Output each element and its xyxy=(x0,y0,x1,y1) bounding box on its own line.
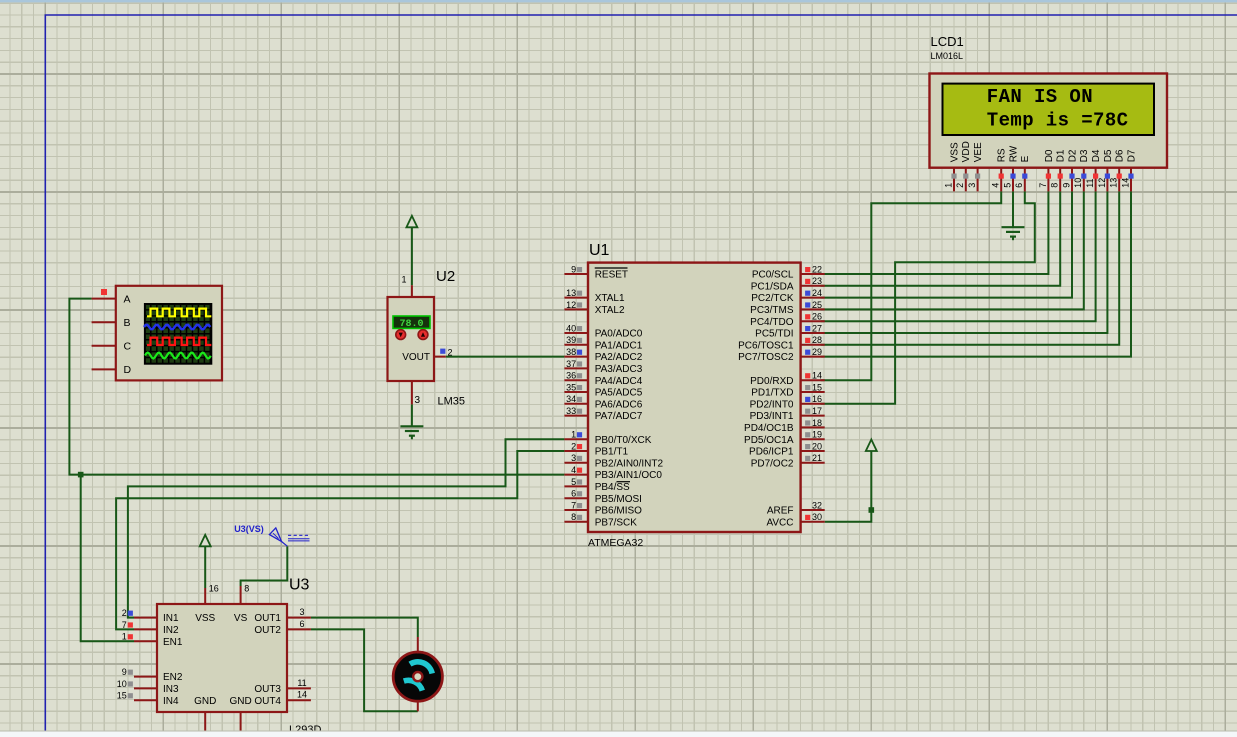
svg-text:15: 15 xyxy=(812,382,822,392)
LCD1 pin 7 D0 xyxy=(1047,168,1049,192)
U3 pin 2 IN1 xyxy=(134,617,157,619)
LCD1 pin 9 D2 xyxy=(1071,168,1073,192)
U1 pin 20 PD6/ICP1 xyxy=(801,450,825,452)
U1 pin 39 PA1/ADC1 xyxy=(564,344,588,346)
U1 pin 19 PD5/OC1A xyxy=(801,438,825,440)
U1 pin 37 PA3/ADC3 xyxy=(564,367,588,369)
svg-text:EN2: EN2 xyxy=(163,672,183,683)
svg-text:C: C xyxy=(124,341,132,353)
U1 pin 27 PC5/TDI xyxy=(801,332,825,334)
svg-text:D: D xyxy=(124,364,132,376)
U2 display 78.0 xyxy=(393,316,430,328)
power VCC arrow right of U1 xyxy=(866,440,877,452)
U1 pin 36 PA4/ADC4 xyxy=(564,379,588,381)
svg-text:2: 2 xyxy=(571,441,576,451)
U1 pin 29 PC7/TOSC2 xyxy=(801,356,825,358)
svg-text:PB3/AIN1/OC0: PB3/AIN1/OC0 xyxy=(595,470,663,481)
svg-text:40: 40 xyxy=(566,323,576,333)
U3 pin 16 VSS xyxy=(204,588,206,604)
svg-text:RESET: RESET xyxy=(595,270,628,281)
svg-text:OUT1: OUT1 xyxy=(254,613,281,624)
svg-text:RS: RS xyxy=(997,148,1008,162)
wire oscilloscope-A to PB3 net xyxy=(69,299,564,475)
U3 pin 1 EN1 xyxy=(134,640,157,642)
svg-text:PB0/T0/XCK: PB0/T0/XCK xyxy=(595,435,652,446)
LCD1 pin 1 VSS xyxy=(953,168,955,192)
svg-text:19: 19 xyxy=(812,430,822,440)
svg-text:14: 14 xyxy=(297,690,307,700)
U1 pin 12 XTAL2 xyxy=(564,308,588,310)
wire L293D VS to probe xyxy=(241,546,288,586)
svg-text:PB6/MISO: PB6/MISO xyxy=(595,506,642,517)
LCD1 pin 2 VDD xyxy=(965,168,967,192)
U3 pin 3 OUT1 xyxy=(287,617,311,619)
wire LCD D2 to PC2 xyxy=(821,191,1072,297)
wire LCD D7 to PC7 xyxy=(821,191,1131,356)
U3 pin 15 IN4 xyxy=(134,699,157,701)
oscilloscope pin B xyxy=(92,321,116,323)
svg-text:PC7/TOSC2: PC7/TOSC2 xyxy=(738,352,794,363)
svg-text:PC3/TMS: PC3/TMS xyxy=(750,305,794,316)
svg-text:IN1: IN1 xyxy=(163,613,179,624)
LCD1 pin 3 VEE xyxy=(977,168,979,192)
svg-text:PA5/ADC5: PA5/ADC5 xyxy=(595,388,643,399)
svg-text:6: 6 xyxy=(571,489,576,499)
svg-text:PC2/TCK: PC2/TCK xyxy=(751,293,794,304)
wire LCD E to PD2 xyxy=(821,191,1035,403)
svg-text:2: 2 xyxy=(448,348,453,358)
oscilloscope pin D xyxy=(92,368,116,370)
svg-text:23: 23 xyxy=(812,276,822,286)
svg-text:34: 34 xyxy=(566,394,576,404)
svg-text:PA4/ADC4: PA4/ADC4 xyxy=(595,376,643,387)
svg-text:1: 1 xyxy=(401,275,406,285)
svg-text:LCD1: LCD1 xyxy=(931,34,964,49)
svg-text:LM35: LM35 xyxy=(438,396,466,408)
svg-text:25: 25 xyxy=(812,300,822,310)
U1 pin 18 PD4/OC1B xyxy=(801,426,825,428)
svg-text:Temp is =78C: Temp is =78C xyxy=(987,110,1129,132)
svg-text:PA7/ADC7: PA7/ADC7 xyxy=(595,411,643,422)
svg-text:18: 18 xyxy=(812,418,822,428)
wire LM35 pin1 to VCC xyxy=(411,227,413,285)
svg-text:VSS: VSS xyxy=(949,142,960,162)
U1 pin 23 PC1/SDA xyxy=(801,285,825,287)
svg-text:GND: GND xyxy=(194,696,216,707)
LCD1 pin 14 D7 xyxy=(1130,168,1132,192)
svg-text:PD1/TXD: PD1/TXD xyxy=(751,388,793,399)
wire LCD D4 to PC4 xyxy=(821,191,1096,321)
U3 GND pin left xyxy=(204,712,206,731)
svg-text:24: 24 xyxy=(812,288,822,298)
svg-text:4: 4 xyxy=(991,183,1001,188)
svg-text:1: 1 xyxy=(943,183,953,188)
oscilloscope trace channel C red xyxy=(147,338,211,345)
U1 pin 35 PA5/ADC5 xyxy=(564,391,588,393)
svg-text:4: 4 xyxy=(571,465,576,475)
svg-text:PB1/T1: PB1/T1 xyxy=(595,447,629,458)
U1 pin 21 PD7/OC2 xyxy=(801,462,825,464)
svg-text:PD3/INT1: PD3/INT1 xyxy=(750,411,794,422)
display LCD1 LM016L body xyxy=(930,74,1168,168)
svg-text:5: 5 xyxy=(571,477,576,487)
svg-text:78.0: 78.0 xyxy=(399,319,423,330)
svg-text:D0: D0 xyxy=(1044,149,1055,162)
svg-text:14: 14 xyxy=(812,371,822,381)
svg-text:1: 1 xyxy=(122,632,127,642)
svg-text:GND: GND xyxy=(229,696,251,707)
wire LCD D6 to PC6 xyxy=(821,191,1120,344)
svg-text:XTAL1: XTAL1 xyxy=(595,293,625,304)
U1 pin 4 PB3/AIN1/OC0 xyxy=(564,474,588,476)
U1 pin 34 PA6/ADC6 xyxy=(564,403,588,405)
svg-text:30: 30 xyxy=(812,512,822,522)
svg-text:3: 3 xyxy=(299,607,304,617)
LCD1 pin 5 RW xyxy=(1012,168,1014,192)
svg-text:D3: D3 xyxy=(1079,149,1090,162)
oscilloscope trace channel A yellow xyxy=(147,309,211,317)
svg-text:PB2/AIN0/INT2: PB2/AIN0/INT2 xyxy=(595,458,664,469)
U3 pin 9 EN2 xyxy=(134,676,157,678)
svg-text:PA3/ADC3: PA3/ADC3 xyxy=(595,364,643,375)
svg-text:B: B xyxy=(124,317,131,329)
svg-text:IN4: IN4 xyxy=(163,696,179,707)
U3 GND pin right xyxy=(240,712,242,731)
wire branch junction to EN1 xyxy=(81,475,134,642)
svg-text:U3: U3 xyxy=(289,577,310,594)
svg-text:IN2: IN2 xyxy=(163,625,179,636)
svg-text:D4: D4 xyxy=(1091,149,1102,162)
svg-text:16: 16 xyxy=(209,584,219,594)
svg-text:22: 22 xyxy=(812,264,822,274)
svg-text:PB5/MOSI: PB5/MOSI xyxy=(595,494,642,505)
svg-text:FAN IS ON: FAN IS ON xyxy=(987,86,1093,108)
svg-text:IN3: IN3 xyxy=(163,684,179,695)
svg-text:9: 9 xyxy=(122,667,127,677)
wire L293D VSS to VCC xyxy=(204,547,206,588)
U3 pin 14 OUT4 xyxy=(287,699,311,701)
svg-text:39: 39 xyxy=(566,335,576,345)
svg-text:27: 27 xyxy=(812,323,822,333)
oscilloscope trace channel B blue xyxy=(144,325,210,329)
U1 pin 6 PB5/MOSI xyxy=(564,497,588,499)
oscilloscope pin A xyxy=(92,298,116,300)
wire PB0 to IN1 xyxy=(128,439,565,617)
svg-text:17: 17 xyxy=(812,406,822,416)
wire LCD D3 to PC3 xyxy=(821,191,1084,309)
svg-text:21: 21 xyxy=(812,453,822,463)
mcu U1 ATMEGA32 body xyxy=(588,263,801,532)
LCD1 green screen xyxy=(943,84,1155,135)
svg-text:11: 11 xyxy=(297,678,306,688)
svg-text:14: 14 xyxy=(1120,178,1130,188)
svg-text:XTAL2: XTAL2 xyxy=(595,305,625,316)
svg-text:E: E xyxy=(1020,155,1031,162)
svg-text:29: 29 xyxy=(812,347,822,357)
svg-text:PD6/ICP1: PD6/ICP1 xyxy=(749,447,794,458)
U1 pin 28 PC6/TOSC1 xyxy=(801,344,825,346)
U3 pin 8 VS xyxy=(240,586,242,604)
wire LM35 pin3 to ground xyxy=(411,404,413,426)
sensor U2 LM35 body xyxy=(388,297,435,381)
svg-text:LM016L: LM016L xyxy=(931,51,964,61)
driver U3 L293D body xyxy=(157,604,287,712)
U1 pin 33 PA7/ADC7 xyxy=(564,415,588,417)
wire LM35 VOUT to PA2 xyxy=(446,356,565,358)
wire LCD D0 to PC0 xyxy=(821,191,1049,274)
svg-text:2: 2 xyxy=(122,608,127,618)
wire OUT1 to motor top xyxy=(311,618,418,637)
svg-text:VDD: VDD xyxy=(961,141,972,162)
svg-text:8: 8 xyxy=(1050,183,1060,188)
svg-text:EN1: EN1 xyxy=(163,637,183,648)
svg-text:6: 6 xyxy=(1014,183,1024,188)
oscilloscope channel A state square red xyxy=(101,289,107,295)
svg-text:11: 11 xyxy=(1085,178,1095,187)
motor pin top xyxy=(417,637,419,654)
svg-text:VS: VS xyxy=(234,613,248,624)
svg-text:1: 1 xyxy=(571,430,576,440)
svg-text:3: 3 xyxy=(415,395,421,406)
svg-text:16: 16 xyxy=(812,394,822,404)
wire LCD RW to ground xyxy=(1012,191,1014,227)
node junction on AVCC riser xyxy=(869,507,875,513)
U3 pin 11 OUT3 xyxy=(287,687,311,689)
U2 pin 2 stub VOUT xyxy=(434,356,446,358)
U2 up button xyxy=(418,330,428,340)
svg-text:PA6/ADC6: PA6/ADC6 xyxy=(595,399,643,410)
U1 pin 2 PB1/T1 xyxy=(564,450,588,452)
svg-text:PA0/ADC0: PA0/ADC0 xyxy=(595,329,643,340)
U3 pin 10 IN3 xyxy=(134,687,157,689)
svg-text:PA2/ADC2: PA2/ADC2 xyxy=(595,352,643,363)
svg-text:7: 7 xyxy=(1038,183,1048,188)
svg-text:PD2/INT0: PD2/INT0 xyxy=(750,399,794,410)
wire PB1 to IN2 xyxy=(116,451,564,629)
U2 down button xyxy=(396,330,406,340)
svg-text:PD7/OC2: PD7/OC2 xyxy=(751,458,794,469)
svg-text:PD5/OC1A: PD5/OC1A xyxy=(744,435,794,446)
svg-text:PC6/TOSC1: PC6/TOSC1 xyxy=(738,340,794,351)
oscilloscope pin C xyxy=(92,345,116,347)
wire AVCC to VCC xyxy=(825,451,872,522)
svg-text:PD0/RXD: PD0/RXD xyxy=(750,376,793,387)
wire OUT2 to motor bottom xyxy=(311,629,418,711)
svg-text:5: 5 xyxy=(1002,183,1012,188)
U1 pin 17 PD3/INT1 xyxy=(801,415,825,417)
svg-text:U1: U1 xyxy=(589,242,610,259)
motor hub xyxy=(413,672,422,681)
U1 pin 32 AREF xyxy=(801,509,825,511)
svg-text:33: 33 xyxy=(566,406,576,416)
svg-text:PD4/OC1B: PD4/OC1B xyxy=(744,423,794,434)
U1 pin 13 XTAL1 xyxy=(564,297,588,299)
svg-text:RW: RW xyxy=(1008,145,1019,162)
wire LCD D5 to PC5 xyxy=(821,191,1108,333)
svg-text:12: 12 xyxy=(566,300,576,310)
U1 pin 1 PB0/T0/XCK xyxy=(564,438,588,440)
U1 pin 9 RESET xyxy=(564,273,588,275)
svg-text:13: 13 xyxy=(566,288,576,298)
svg-text:U2: U2 xyxy=(436,268,455,285)
svg-text:26: 26 xyxy=(812,312,822,322)
U1 pin 40 PA0/ADC0 xyxy=(564,332,588,334)
svg-text:D5: D5 xyxy=(1103,149,1114,162)
svg-text:PB4/SS: PB4/SS xyxy=(595,482,630,493)
svg-text:3: 3 xyxy=(571,453,576,463)
svg-text:D2: D2 xyxy=(1067,149,1078,162)
ground below U2 xyxy=(400,425,423,427)
svg-text:OUT3: OUT3 xyxy=(254,684,281,695)
svg-text:PC4/TDO: PC4/TDO xyxy=(750,317,794,328)
probe dashed annotation xyxy=(288,534,310,536)
svg-text:AVCC: AVCC xyxy=(766,517,793,528)
svg-text:7: 7 xyxy=(571,500,576,510)
U1 pin 14 PD0/RXD xyxy=(801,379,825,381)
svg-text:3: 3 xyxy=(967,183,977,188)
U1 pin 22 PC0/SCL xyxy=(801,273,825,275)
svg-text:D6: D6 xyxy=(1115,149,1126,162)
svg-text:PC1/SDA: PC1/SDA xyxy=(751,281,794,292)
U1 pin 15 PD1/TXD xyxy=(801,391,825,393)
LCD1 pin 10 D3 xyxy=(1083,168,1085,192)
svg-text:8: 8 xyxy=(571,512,576,522)
svg-text:9: 9 xyxy=(571,264,576,274)
svg-text:10: 10 xyxy=(1073,178,1083,188)
svg-text:12: 12 xyxy=(1097,178,1107,188)
U1 pin 26 PC4/TDO xyxy=(801,320,825,322)
svg-text:PA1/ADC1: PA1/ADC1 xyxy=(595,340,643,351)
U1 pin 7 PB6/MISO xyxy=(564,509,588,511)
motor blade arc top xyxy=(410,662,432,674)
svg-text:37: 37 xyxy=(566,359,576,369)
svg-text:U3(VS): U3(VS) xyxy=(234,524,264,534)
svg-text:36: 36 xyxy=(566,371,576,381)
oscilloscope screen xyxy=(145,304,211,364)
svg-text:9: 9 xyxy=(1061,183,1071,188)
oscilloscope body xyxy=(116,286,222,381)
svg-text:OUT4: OUT4 xyxy=(254,696,281,707)
window bottom strip xyxy=(0,731,1237,737)
svg-text:PC0/SCL: PC0/SCL xyxy=(752,270,794,281)
svg-text:AREF: AREF xyxy=(767,506,794,517)
svg-text:VOUT: VOUT xyxy=(402,352,430,363)
U1 pin 25 PC3/TMS xyxy=(801,308,825,310)
LCD1 pin 8 D1 xyxy=(1059,168,1061,192)
U1 pin 3 PB2/AIN0/INT2 xyxy=(564,462,588,464)
LCD1 pin 11 D4 xyxy=(1095,168,1097,192)
svg-text:PB7/SCK: PB7/SCK xyxy=(595,517,638,528)
U1 pin 38 PA2/ADC2 xyxy=(564,356,588,358)
U3 pin 7 IN2 xyxy=(134,628,157,630)
svg-text:38: 38 xyxy=(566,347,576,357)
svg-text:D1: D1 xyxy=(1056,149,1067,162)
U1 pin 8 PB7/SCK xyxy=(564,521,588,523)
svg-text:35: 35 xyxy=(566,382,576,392)
LCD1 pin 6 E xyxy=(1024,168,1026,192)
svg-text:2: 2 xyxy=(955,183,965,188)
svg-text:PC5/TDI: PC5/TDI xyxy=(755,329,793,340)
node junction A/PB3/EN1 xyxy=(78,472,84,478)
motor pin bottom xyxy=(417,700,419,711)
power VCC arrow above U2 xyxy=(406,216,417,228)
U1 pin 30 AVCC xyxy=(801,521,825,523)
LCD1 pin 4 RS xyxy=(1000,168,1002,192)
wire LCD RS to PD0 xyxy=(821,191,1002,380)
U3 pin 6 OUT2 xyxy=(287,628,311,630)
U1 pin 24 PC2/TCK xyxy=(801,297,825,299)
U2 pin 1 stub xyxy=(411,285,413,297)
svg-text:OUT2: OUT2 xyxy=(254,625,281,636)
svg-text:ATMEGA32: ATMEGA32 xyxy=(588,537,643,549)
svg-text:A: A xyxy=(124,293,131,305)
power VCC arrow above U3 VSS xyxy=(200,535,211,547)
svg-text:VSS: VSS xyxy=(195,613,215,624)
svg-text:28: 28 xyxy=(812,335,822,345)
svg-text:20: 20 xyxy=(812,441,822,451)
ground below LCD RW pin xyxy=(1002,226,1025,228)
svg-text:10: 10 xyxy=(117,679,127,689)
LCD1 pin 12 D5 xyxy=(1106,168,1108,192)
svg-text:D7: D7 xyxy=(1126,149,1137,162)
svg-text:15: 15 xyxy=(117,691,127,701)
LCD1 pin 13 D6 xyxy=(1118,168,1120,192)
U1 pin 16 PD2/INT0 xyxy=(801,403,825,405)
U1 pin 5 PB4/SS xyxy=(564,485,588,487)
svg-text:6: 6 xyxy=(299,619,304,629)
motor fan body xyxy=(393,652,442,701)
oscilloscope trace channel D green xyxy=(145,353,211,359)
wire LCD D1 to PC1 xyxy=(821,191,1061,285)
svg-text:8: 8 xyxy=(244,584,249,594)
U2 pin 3 stub xyxy=(411,381,413,405)
svg-text:13: 13 xyxy=(1109,178,1119,188)
svg-text:32: 32 xyxy=(812,500,822,510)
motor blade arc bottom xyxy=(404,680,423,690)
svg-text:7: 7 xyxy=(122,620,127,630)
svg-text:VEE: VEE xyxy=(973,142,984,162)
